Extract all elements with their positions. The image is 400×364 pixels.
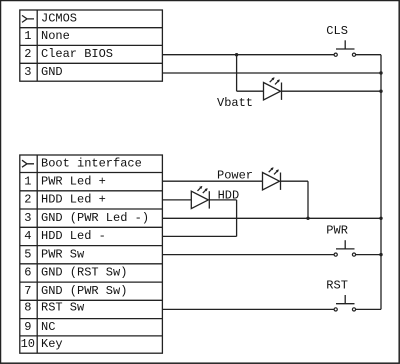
svg-text:7: 7	[24, 284, 31, 298]
svg-text:8: 8	[24, 301, 31, 315]
svg-text:2: 2	[24, 47, 31, 61]
svg-text:HDD Led -: HDD Led -	[41, 229, 106, 243]
svg-text:RST: RST	[326, 279, 348, 293]
svg-text:1: 1	[24, 29, 31, 43]
svg-text:HDD Led +: HDD Led +	[41, 193, 106, 207]
svg-text:PWR: PWR	[326, 224, 348, 238]
svg-text:JCMOS: JCMOS	[41, 12, 77, 26]
svg-text:Boot interface: Boot interface	[41, 156, 142, 170]
svg-text:GND (PWR Sw): GND (PWR Sw)	[41, 284, 127, 298]
svg-text:1: 1	[24, 174, 31, 188]
svg-text:GND: GND	[41, 65, 63, 79]
svg-text:Key: Key	[41, 337, 63, 351]
svg-text:6: 6	[24, 266, 31, 280]
svg-text:GND (RST Sw): GND (RST Sw)	[41, 266, 127, 280]
svg-text:None: None	[41, 29, 70, 43]
svg-text:Vbatt: Vbatt	[217, 96, 253, 110]
svg-text:9: 9	[24, 320, 31, 334]
svg-text:Power: Power	[217, 169, 253, 183]
svg-text:NC: NC	[41, 320, 55, 334]
svg-text:PWR Led +: PWR Led +	[41, 174, 106, 188]
svg-text:RST Sw: RST Sw	[41, 301, 85, 315]
svg-text:PWR Sw: PWR Sw	[41, 247, 85, 261]
svg-text:10: 10	[21, 337, 35, 351]
svg-text:3: 3	[24, 211, 31, 225]
svg-text:GND (PWR Led -): GND (PWR Led -)	[41, 211, 149, 225]
svg-text:3: 3	[24, 65, 31, 79]
svg-text:5: 5	[24, 247, 31, 261]
svg-text:2: 2	[24, 193, 31, 207]
svg-text:CLS: CLS	[326, 24, 348, 38]
svg-text:4: 4	[24, 229, 31, 243]
svg-text:HDD: HDD	[218, 189, 240, 203]
svg-text:Clear BIOS: Clear BIOS	[41, 47, 113, 61]
